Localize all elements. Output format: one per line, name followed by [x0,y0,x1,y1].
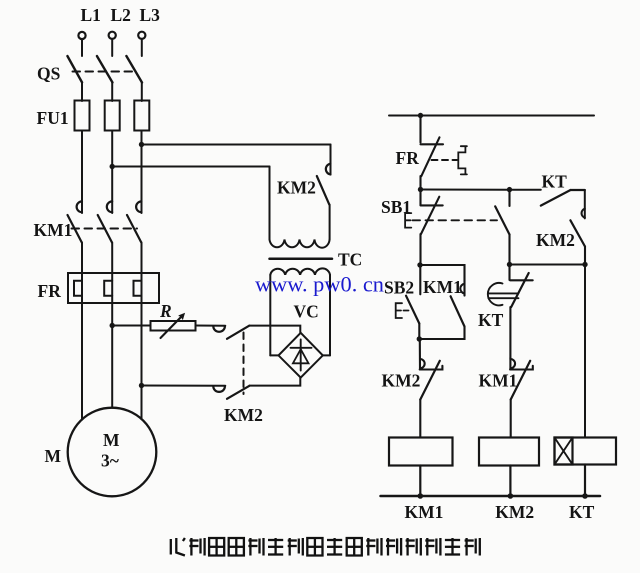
node L2 terminal [109,32,116,56]
svg-text:KM2: KM2 [277,178,316,198]
contactor KM1 main contacts [68,201,142,242]
wire FR to motor [82,303,142,420]
contactor KM2 brake contact lower [213,386,249,399]
coil KT (time relay) [555,438,617,497]
transformer TC primary [270,167,330,248]
node tap to resistor R [110,323,115,328]
svg-text:L2: L2 [111,5,131,25]
svg-text:FU1: FU1 [37,108,69,128]
switch QS [67,56,142,83]
contactor KM2 power contact (top) [317,145,331,205]
svg-text:VC: VC [294,302,319,322]
wire tap to R [112,325,150,327]
node branch B top [507,187,512,192]
pushbutton SB2 start (NO) [396,265,421,339]
node rail to FR [418,113,423,118]
contactor KM2 latch contact (NO) [570,209,585,265]
contactor KM1 latch contact (NO) [419,265,464,339]
coil KM2 [479,438,539,497]
svg-text:KT: KT [569,502,595,522]
svg-text:SB1: SB1 [381,197,411,217]
node branch B mid [507,262,512,267]
svg-text:FR: FR [396,148,420,168]
transformer TC core [270,258,333,261]
svg-text:FR: FR [38,281,62,301]
svg-text:KM2: KM2 [382,371,421,391]
wire KM1 to FR [82,243,142,274]
wire KT coil drop [584,265,586,438]
node branch A mid [417,262,422,267]
wire to power KM2 contact [142,144,331,146]
relay contact KT instantaneous (NO, top right) [541,190,585,206]
wire control bottom rail [381,495,601,498]
pushbutton SB1 linked contact (NO) [495,190,509,265]
svg-text:KM1: KM1 [423,277,462,297]
svg-text:L1: L1 [81,5,101,25]
resistor R (adjustable) [151,314,196,338]
contactor KM2 brake contact upper [213,326,249,339]
svg-text:KT: KT [542,172,568,192]
coil KM1 [389,438,453,497]
svg-text:KM2: KM2 [224,405,263,425]
node tap L3 to KM2 brake branch [139,142,144,147]
svg-text:QS: QS [37,64,60,84]
wire corner down to KM2 latch [584,190,586,218]
SB1 linkage dashed [413,219,498,221]
contactor KM1 interlock contact (NC) [510,358,533,438]
node KT coil to rail [582,493,588,499]
node latch rejoin [417,336,422,341]
transformer TC secondary [270,268,330,355]
node KM1 coil to rail [418,493,424,499]
time relay contact KT (NC delayed opening) [488,265,533,359]
svg-text:M: M [45,446,62,466]
wire R to KM2 brake contact upper [196,325,226,327]
svg-text:KM1: KM1 [34,220,73,240]
wire to TC primary left [112,166,269,168]
node KT feed [582,262,587,267]
wire FU1 to KM1 contacts [82,131,142,214]
svg-text:TC: TC [338,250,362,270]
node tap L3 to KM2 brake lower [139,383,144,388]
thermal contact FR (NC) [421,116,467,190]
svg-text:KM2: KM2 [495,502,534,522]
wire to VC dc+ [249,326,300,333]
svg-text:KM1: KM1 [479,371,518,391]
wire to VC dc- [249,378,300,386]
rectifier VC bridge [279,333,323,378]
svg-text:L3: L3 [140,5,161,25]
node L3 terminal [138,32,145,56]
thermal relay FR heater box [68,273,159,303]
node L1 terminal [78,32,85,56]
wire control top rail [389,115,594,117]
caption 以时间原则控制的单向能耗制动线路 (pseudo-glyph strokes) [171,538,480,556]
KM2 brake linkage dashed [243,333,245,395]
node FR bottom junction [418,187,423,192]
wire tap to KM2 brake lower [142,385,226,387]
wire cross feed [421,189,541,191]
node KM2 coil to rail [508,493,514,499]
contactor KM2 interlock contact (NC) [420,339,443,438]
svg-text:KT: KT [478,310,504,330]
svg-text:KM1: KM1 [405,502,444,522]
svg-text:3~: 3~ [101,451,119,471]
svg-text:KM2: KM2 [536,230,575,250]
fuse FU1 [75,101,150,131]
node tap L2 to TC primary [110,164,115,169]
svg-text:R: R [159,301,172,321]
svg-text:www. pw0. cn: www. pw0. cn [255,272,384,297]
svg-text:SB2: SB2 [384,278,414,298]
motor M [68,408,157,497]
wire QS to FU1 [82,83,142,102]
pushbutton SB1 stop (NC) [405,190,443,266]
wire branch B to KT coil feed [510,264,586,266]
svg-text:M: M [103,430,120,450]
